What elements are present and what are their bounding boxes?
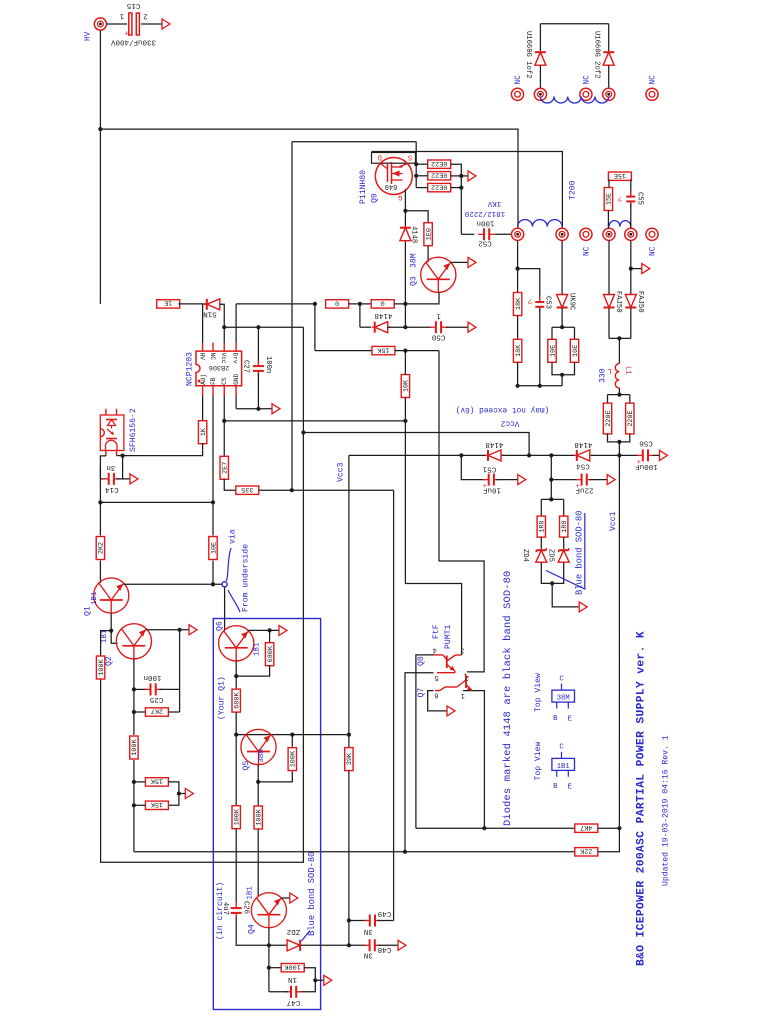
resistor 0E22 b	[428, 170, 451, 180]
junction	[550, 581, 554, 585]
svg-text:4K7: 4K7	[580, 823, 592, 831]
junction	[403, 419, 407, 423]
svg-text:C56: C56	[639, 438, 653, 446]
resistor 1E	[157, 299, 180, 309]
wire join	[609, 337, 631, 339]
wire	[179, 793, 185, 795]
junction	[222, 325, 226, 329]
diode S1N	[204, 299, 223, 310]
junction	[549, 497, 553, 501]
svg-text:C15: C15	[126, 1, 140, 9]
svg-text:P11NH80: P11NH80	[359, 170, 368, 204]
svg-text:3N: 3N	[364, 927, 373, 935]
svg-text:C26: C26	[241, 901, 249, 914]
svg-text:0E22: 0E22	[431, 182, 447, 190]
wire Q6 emitter	[249, 629, 279, 631]
resistor 1E0	[424, 223, 434, 246]
wire HV bus down	[99, 31, 101, 304]
svg-text:1: 1	[461, 691, 465, 699]
wire 2K2 to Q1 base	[99, 561, 101, 583]
junction	[267, 966, 271, 970]
svg-text:NC: NC	[209, 353, 216, 361]
svg-text:C55: C55	[636, 192, 644, 205]
terminal arrow	[468, 171, 476, 181]
junction	[358, 302, 362, 306]
svg-text:HV: HV	[85, 31, 93, 41]
via pointer	[226, 548, 231, 581]
resistor 0E22 c	[428, 182, 451, 192]
junction	[414, 174, 418, 178]
terminal arrow	[607, 475, 615, 485]
junction	[347, 918, 351, 922]
svg-text:Blue bond SOD-80: Blue bond SOD-80	[307, 852, 317, 936]
wire	[236, 666, 269, 677]
wire	[404, 398, 406, 421]
svg-text:NC: NC	[650, 246, 658, 256]
via circle	[222, 582, 227, 587]
diode 4148 gate	[400, 228, 411, 241]
svg-text:1B1: 1B1	[91, 591, 99, 605]
resistor 10E a	[548, 339, 558, 362]
wire 680K a	[269, 630, 271, 643]
svg-text:6: 6	[434, 691, 438, 699]
wire Q3 collector	[451, 261, 468, 263]
wire to Q4 base	[257, 829, 259, 897]
wire	[257, 373, 259, 409]
capacitor C48 3N	[364, 939, 381, 951]
svg-text:Vcc2: Vcc2	[500, 418, 519, 426]
junction	[301, 430, 305, 434]
svg-text:C47: C47	[287, 998, 301, 1006]
svg-text:Vcc3: Vcc3	[337, 462, 346, 482]
svg-text:S: S	[408, 153, 412, 161]
svg-text:C49: C49	[378, 909, 392, 917]
junction	[459, 453, 463, 457]
svg-text:38M: 38M	[557, 695, 570, 703]
junction	[256, 780, 260, 784]
svg-text:C14: C14	[105, 485, 119, 493]
svg-text:100uF: 100uF	[635, 462, 658, 470]
wire	[349, 303, 372, 305]
wire	[107, 23, 128, 25]
capacitor C26 4u7	[231, 902, 242, 919]
svg-text:FAJ50: FAJ50	[614, 291, 622, 313]
wire GND pin	[235, 396, 237, 409]
wire	[589, 479, 607, 481]
diode UK9C	[557, 295, 568, 308]
zener diode ZD4	[536, 548, 547, 562]
svg-text:L: L	[607, 366, 611, 374]
wire	[539, 65, 541, 88]
wire Q2 emitter	[146, 629, 188, 631]
wire	[134, 804, 146, 806]
junction	[234, 674, 238, 678]
wire 15E leg	[608, 179, 610, 187]
junction	[267, 943, 271, 947]
resistor 10E fb	[209, 537, 219, 560]
svg-text:Vcc: Vcc	[220, 353, 227, 364]
wire	[539, 24, 541, 52]
junction	[178, 628, 182, 632]
svg-text:via: via	[228, 529, 237, 544]
wire 4148 row	[360, 326, 371, 328]
svg-text:(may not exceed (6v): (may not exceed (6v)	[456, 405, 550, 413]
svg-text:Q3: Q3	[409, 276, 418, 286]
svg-text:1R8: 1R8	[561, 520, 569, 532]
svg-text:1N: 1N	[288, 975, 297, 983]
wire 15K rows	[134, 781, 146, 783]
terminal arrow	[447, 706, 455, 716]
svg-text:SFH6156-2: SFH6156-2	[129, 408, 138, 452]
resistor 18K a	[513, 293, 523, 316]
transistor Q7 (PUMT1)	[435, 673, 472, 690]
wire Q8 emitter down	[405, 673, 434, 852]
wire Vcc branch	[224, 326, 303, 328]
svg-text:100n: 100n	[143, 673, 161, 681]
wire C47 loop	[268, 945, 270, 992]
svg-text:1: 1	[119, 11, 124, 19]
resistor 15K a	[145, 777, 168, 787]
junction	[538, 384, 542, 388]
resistor 100K d	[288, 748, 298, 771]
svg-text:220E: 220E	[605, 410, 613, 426]
Top View diagram 38M	[552, 684, 575, 709]
svg-text:Q6: Q6	[215, 621, 224, 631]
svg-text:18K: 18K	[515, 344, 523, 357]
wire	[495, 233, 511, 235]
svg-text:NC: NC	[584, 75, 592, 85]
svg-text:1E: 1E	[164, 299, 172, 307]
svg-text:UK9C: UK9C	[567, 293, 575, 311]
wire sense bus x292	[291, 142, 293, 491]
wire	[416, 175, 428, 177]
svg-text:C51: C51	[482, 465, 496, 473]
wire	[608, 434, 630, 442]
junction	[132, 687, 136, 691]
svg-text:100n: 100n	[476, 219, 494, 227]
wire	[236, 408, 272, 410]
wire Q2 base	[111, 631, 117, 644]
wire	[395, 350, 439, 352]
svg-text:10uF: 10uF	[483, 485, 501, 493]
svg-text:640: 640	[385, 182, 398, 190]
wire	[607, 210, 609, 228]
wire C27 top	[257, 327, 259, 364]
wire 220E pair	[608, 394, 630, 396]
svg-text:From underside: From underside	[241, 544, 250, 612]
junction	[222, 419, 226, 423]
wire	[404, 351, 406, 375]
wire	[552, 583, 579, 607]
svg-text:Drv: Drv	[232, 353, 239, 364]
svg-text:Top View: Top View	[534, 673, 543, 712]
wire	[269, 967, 282, 969]
wire opto cathode	[100, 456, 106, 503]
pad T200 s2	[625, 228, 637, 240]
resistor 15K feedback	[372, 345, 395, 355]
junction	[403, 850, 407, 854]
svg-text:C27: C27	[241, 360, 249, 373]
svg-text:1K: 1K	[200, 427, 208, 436]
wire	[359, 304, 361, 327]
resistor 22K	[575, 846, 598, 856]
svg-text:NC: NC	[515, 75, 523, 85]
svg-text:ZD5: ZD5	[546, 549, 554, 562]
wire	[561, 375, 563, 386]
wire	[416, 163, 428, 165]
svg-text:ZD4: ZD4	[521, 549, 529, 562]
svg-text:0E22: 0E22	[431, 170, 447, 178]
zener diode ZD5	[558, 548, 569, 562]
junction	[211, 500, 215, 504]
transistor Q2	[116, 624, 151, 659]
wire	[618, 442, 620, 456]
capacitor C56 100uF	[637, 449, 654, 467]
svg-text:1B1: 1B1	[557, 763, 570, 771]
transistor Q9 P11NH80 MOSFET	[375, 158, 412, 195]
capacitor C52 100n	[478, 228, 495, 240]
pointer	[228, 590, 240, 612]
diode FAJ50 b	[625, 295, 636, 308]
wire	[540, 499, 542, 516]
wire opto to FB	[100, 501, 213, 503]
wire	[591, 454, 639, 456]
svg-text:T200: T200	[569, 180, 578, 200]
resistor 10E b	[570, 339, 580, 362]
wire join row	[518, 385, 563, 387]
capacitor C47 1N	[285, 986, 302, 998]
svg-text:22uF: 22uF	[575, 485, 593, 493]
wire to C26	[235, 829, 237, 904]
capacitor C27 100n	[253, 360, 264, 377]
svg-text:E: E	[568, 715, 572, 723]
svg-text:39K: 39K	[346, 752, 354, 765]
svg-text:15K: 15K	[150, 777, 163, 785]
terminal arrow	[290, 893, 298, 903]
wire drain to T200 pad2	[372, 152, 563, 229]
capacitor C25	[145, 683, 162, 695]
terminal arrow	[660, 450, 668, 460]
wire 2K7 row	[134, 711, 146, 713]
svg-text:330: 330	[598, 368, 607, 383]
junction	[516, 384, 520, 388]
junction	[560, 373, 564, 377]
pad T200 p1	[511, 228, 523, 240]
diode 4148 d	[574, 450, 593, 461]
junction	[549, 478, 553, 482]
wire	[552, 362, 575, 375]
wire	[608, 65, 610, 88]
junction	[347, 733, 351, 737]
svg-text:2K7: 2K7	[151, 707, 163, 715]
wire	[563, 537, 565, 549]
svg-text:22K: 22K	[579, 846, 592, 854]
wire CS chain	[223, 396, 225, 457]
pad NC	[646, 88, 658, 100]
wire Q1 collector	[110, 613, 112, 631]
wire Q4 emitter	[281, 897, 289, 899]
resistor 100K c	[232, 806, 242, 829]
junction	[403, 302, 407, 306]
wire	[540, 537, 542, 549]
wire Q5 base row	[236, 734, 349, 736]
svg-text:100K: 100K	[234, 808, 242, 825]
svg-text:Q1: Q1	[83, 606, 92, 616]
wire to L1	[618, 338, 620, 363]
svg-text:15K: 15K	[150, 800, 163, 808]
junction	[617, 336, 621, 340]
wire drive to source bus	[292, 141, 416, 143]
junction	[268, 628, 272, 632]
svg-text:1KV: 1KV	[487, 199, 501, 207]
svg-text:1B1: 1B1	[247, 886, 255, 900]
svg-text:PUMT1: PUMT1	[444, 625, 453, 649]
resistor 15K b	[145, 800, 168, 810]
svg-text:100K: 100K	[284, 962, 301, 970]
junction	[527, 453, 531, 457]
wire	[618, 388, 620, 395]
wire Q7 emitter down	[463, 691, 484, 829]
wire	[348, 771, 350, 945]
diode 4148 c	[485, 450, 504, 461]
wire	[497, 479, 518, 481]
wire to Q8 collector	[405, 421, 461, 655]
resistor 680K b	[232, 689, 242, 712]
wire 1K to opto	[123, 443, 203, 456]
blue highlight box	[213, 619, 320, 1010]
svg-text:NCP1203: NCP1203	[185, 352, 194, 386]
diode 4148 b	[372, 322, 391, 333]
wire	[517, 362, 519, 386]
D/S pin box of Q9	[372, 153, 416, 164]
wire	[378, 944, 398, 946]
wire S1N to Vcc pin	[220, 304, 224, 342]
svg-text:C25: C25	[149, 695, 163, 703]
svg-text:10E: 10E	[549, 345, 557, 357]
wire to 2K2	[99, 502, 101, 535]
resistor 2K7	[145, 707, 168, 717]
junction	[549, 453, 553, 457]
wire gate	[404, 189, 406, 227]
capacitor C51 10uF	[483, 474, 500, 492]
resistor 0 b	[371, 299, 394, 309]
svg-text:G: G	[398, 192, 402, 200]
wire C51	[461, 455, 486, 479]
wire	[653, 454, 659, 456]
svg-text:C: C	[559, 675, 564, 683]
svg-text:U1660G 1of2: U1660G 1of2	[524, 31, 532, 78]
resistor 1R8 b	[560, 516, 570, 537]
wire via to Q6 base	[224, 587, 226, 631]
wire	[315, 979, 323, 981]
wire	[299, 968, 315, 992]
wire	[235, 712, 237, 806]
resistor 220E a	[603, 403, 613, 434]
svg-text:Q2: Q2	[105, 656, 114, 666]
capacitor C14	[103, 473, 120, 485]
svg-text:0E22: 0E22	[431, 159, 447, 167]
wire CS row	[224, 420, 405, 422]
wire	[598, 827, 620, 829]
wire C49 row	[349, 920, 367, 922]
wire	[561, 308, 563, 327]
wire	[168, 711, 179, 713]
wire Q1 emitter	[124, 583, 223, 585]
svg-text:18K: 18K	[515, 297, 523, 310]
terminal arrow	[324, 975, 332, 985]
capacitor C50	[430, 321, 447, 333]
wire C55 leg	[630, 179, 632, 194]
resistor 2E7	[220, 456, 230, 479]
capacitor C54 22uF	[576, 474, 593, 492]
svg-text:NC: NC	[650, 75, 658, 85]
svg-text:?: ?	[618, 193, 623, 201]
capacitor C55 ?	[626, 191, 635, 208]
wire	[461, 233, 474, 235]
svg-text:4u7: 4u7	[221, 902, 229, 915]
junction	[617, 440, 621, 444]
junction	[459, 174, 463, 178]
terminal arrow	[518, 475, 526, 485]
op-amp U1 NCP1203 controller IC	[196, 343, 242, 397]
diode ZD2	[287, 940, 300, 951]
wire	[415, 142, 417, 188]
wire 1R8 box	[541, 498, 563, 500]
wire C25 row	[134, 688, 147, 690]
svg-text:10K: 10K	[403, 379, 411, 392]
pad NC	[580, 88, 592, 100]
junction	[211, 582, 215, 586]
svg-text:100K: 100K	[131, 738, 139, 755]
svg-text:Q5: Q5	[242, 761, 251, 771]
wire 18K chain	[517, 241, 519, 293]
svg-text:Updated 19-03-2019 04:16 Rev: Updated 19-03-2019 04:16 Rev. 1	[662, 735, 671, 886]
wire 15K row	[315, 350, 372, 352]
wire	[378, 920, 394, 922]
wire 10E box	[552, 326, 575, 328]
wire	[630, 308, 632, 339]
svg-text:NC: NC	[584, 246, 592, 256]
resistor 15E a	[608, 171, 631, 181]
svg-text:4148: 4148	[574, 440, 592, 448]
svg-text:FtF: FtF	[432, 624, 441, 639]
terminal arrow	[398, 940, 406, 950]
wire right branch	[179, 630, 181, 712]
resistor 100K a	[96, 656, 106, 679]
junction	[98, 500, 102, 504]
wire	[258, 772, 292, 782]
svg-text:E: E	[568, 784, 572, 792]
pad NC	[646, 228, 658, 240]
svg-text:?: ?	[528, 296, 533, 304]
wire Q5 collector	[257, 765, 259, 807]
resistor 39K	[345, 748, 355, 771]
terminal arrow	[642, 264, 650, 274]
svg-text:Adj: Adj	[200, 374, 207, 385]
wire 1E0 to Q3 base	[427, 246, 429, 262]
junction	[290, 488, 294, 492]
junction	[313, 302, 317, 306]
junction	[256, 407, 260, 411]
junction	[109, 629, 113, 633]
svg-text:3n: 3n	[106, 463, 115, 471]
svg-text:2B306: 2B306	[209, 363, 229, 371]
junction	[132, 710, 136, 714]
transistor Q3	[421, 257, 456, 292]
svg-text:Diodes marked 4148 are black b: Diodes marked 4148 are black band SOD-80	[502, 571, 514, 826]
wire	[117, 455, 123, 457]
winding top (blue)	[540, 97, 608, 104]
